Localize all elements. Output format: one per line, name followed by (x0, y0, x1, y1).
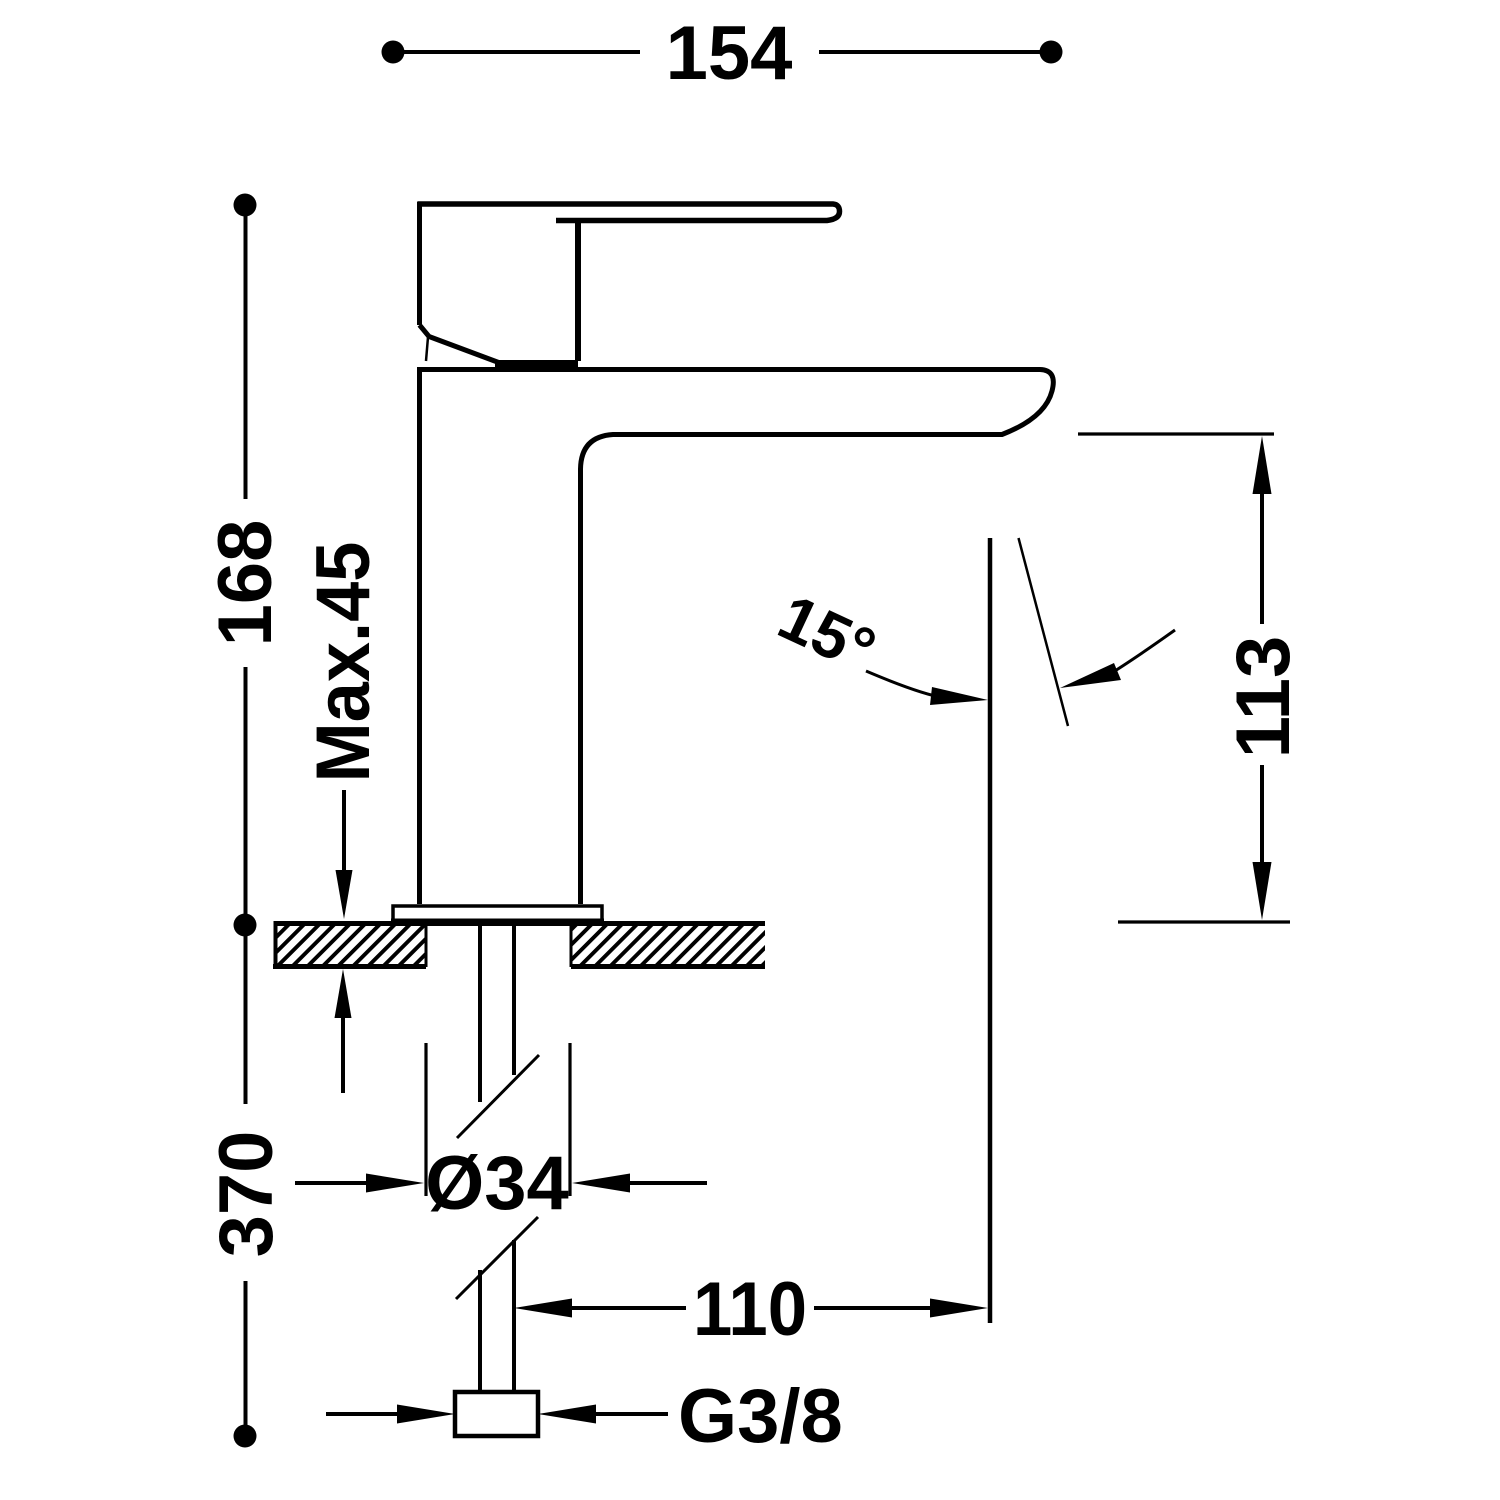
left leader arrowhead (930, 687, 988, 705)
svg-text:154: 154 (666, 11, 793, 96)
faucet lever handle (418, 202, 840, 365)
dim 168 lower line segment (244, 667, 248, 915)
pipe left edge lower segment (478, 1270, 482, 1391)
Max.45 deck thickness note (301, 542, 386, 1094)
dim 154 left end dot (382, 41, 405, 64)
pipe left edge upper segment (478, 924, 482, 1102)
handle neck vertical (575, 221, 581, 361)
body left vertical edge (417, 367, 422, 904)
right leader arc (1105, 630, 1175, 677)
dim 113 top extension line (1078, 432, 1274, 435)
G3/8 right shaft (592, 1412, 668, 1416)
flange bottom thick line (391, 919, 604, 925)
handle lower-left chamfer (420, 325, 501, 363)
countertop top surface line (275, 921, 765, 926)
handle top and tip outline (418, 204, 840, 221)
svg-text:370: 370 (204, 1131, 289, 1258)
dim 34 right shaft (626, 1181, 707, 1185)
svg-text:Ø34: Ø34 (425, 1141, 569, 1226)
dim 168 upper line segment (244, 215, 248, 499)
dim 110 right shaft (814, 1306, 934, 1310)
15 degree swivel angle note (768, 538, 1175, 1323)
pipe break mark upper (457, 1055, 539, 1138)
countertop bottom line right (571, 964, 765, 969)
Max.45 down arrowhead (336, 870, 353, 919)
G3/8 left shaft (326, 1412, 399, 1416)
svg-text:113: 113 (1221, 636, 1306, 759)
countertop left hatched block (277, 926, 426, 965)
G3/8 connection nut (455, 1392, 538, 1436)
svg-text:Max.45: Max.45 (301, 542, 386, 783)
countertop bottom line left (273, 964, 426, 969)
dim 370 lower line segment (244, 1281, 248, 1426)
mounting hole right edge (570, 924, 573, 968)
dim 113 upper shaft (1260, 490, 1264, 624)
countertop section (273, 921, 765, 967)
dim 34 right arrowhead (572, 1174, 630, 1193)
G3/8 left arrowhead (397, 1405, 455, 1424)
Max.45 lower arrow shaft (341, 1012, 345, 1093)
G3/8 thread callout (326, 1374, 843, 1459)
dim 34 left shaft (295, 1181, 370, 1185)
dimension 154 overall width (382, 11, 1063, 96)
G3/8 right arrowhead (538, 1405, 596, 1424)
mounting hole left edge (425, 924, 428, 968)
left leader arc (866, 671, 945, 698)
handle left vertical edge (417, 202, 422, 326)
pipe break mark lower (456, 1217, 538, 1299)
base plate flange (391, 906, 604, 922)
dim 34 right extension line (568, 1043, 571, 1196)
dim 370 bottom dot (234, 1425, 257, 1448)
dim 34 left arrowhead (366, 1174, 424, 1193)
pipe right edge lower segment (512, 1240, 516, 1391)
dim 113 down arrowhead (1253, 862, 1272, 920)
Max.45 upper arrow shaft (342, 790, 346, 878)
dim 154 left line segment (402, 50, 640, 54)
flange outline (393, 906, 602, 922)
dim 168 bottom dot (234, 914, 257, 937)
dim 154 right line segment (819, 50, 1043, 54)
pipe right edge upper segment (512, 924, 516, 1075)
threaded supply tail pipe (456, 924, 539, 1391)
dim 34 left extension line (424, 1043, 427, 1196)
svg-text:168: 168 (203, 520, 288, 647)
dimension 113 spout height (1078, 434, 1306, 922)
dim 168 top dot (234, 194, 257, 217)
dimension 168 height (203, 194, 288, 937)
dim 113 up arrowhead (1253, 436, 1272, 494)
dim 370 upper line segment (244, 935, 248, 1104)
dimension 370 depth below deck (204, 935, 289, 1448)
faucet body and spout (417, 367, 1053, 904)
right leader arrowhead (1060, 663, 1121, 688)
vertical axis reference line (988, 538, 993, 1323)
svg-text:110: 110 (693, 1267, 807, 1352)
dim 110 left arrowhead (514, 1299, 572, 1318)
dimension 110 offset (514, 1267, 988, 1352)
svg-text:G3/8: G3/8 (678, 1374, 843, 1459)
dim 154 right end dot (1040, 41, 1063, 64)
tilted 15 degree line (1019, 538, 1069, 726)
countertop left end edge (274, 921, 278, 967)
dim 110 left shaft (568, 1306, 686, 1310)
body top, spout tip and underside outline (417, 370, 1053, 905)
dim 113 bottom extension line (1118, 920, 1290, 923)
handle base small tick (426, 337, 428, 361)
dim 110 right arrowhead (930, 1299, 988, 1318)
countertop right hatched block (571, 926, 765, 965)
white patch trimming O slash tail (419, 1220, 459, 1242)
dimension diameter 34 hole (295, 1043, 707, 1242)
dim 113 lower shaft (1260, 765, 1264, 866)
Max.45 up arrowhead (335, 969, 352, 1018)
handle base thick seat line (495, 360, 578, 368)
